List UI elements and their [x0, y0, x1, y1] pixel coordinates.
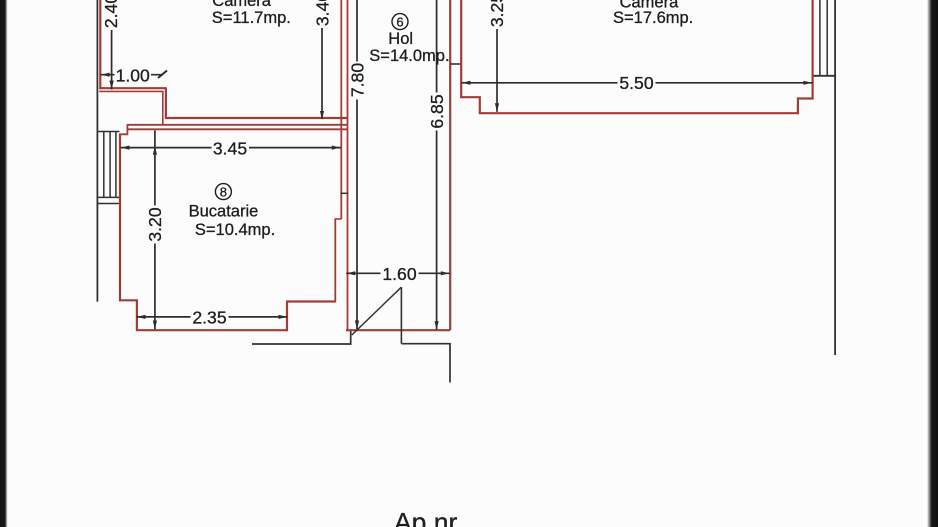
svg-text:6: 6 — [396, 15, 403, 30]
room label Bucatarie with circled 8 — [189, 184, 276, 239]
wall red Hol right wall — [449, 0, 451, 330]
dimension 3.25 — [487, 0, 507, 112]
svg-text:3.25: 3.25 — [487, 0, 507, 27]
wall exterior black line right — [834, 0, 836, 355]
dimension 1.00 — [100, 65, 167, 85]
svg-text:3.45: 3.45 — [213, 138, 247, 158]
svg-text:3.40: 3.40 — [312, 0, 332, 26]
door swing diagonal — [352, 287, 402, 335]
svg-text:2.40: 2.40 — [101, 0, 121, 28]
wall red step verticals — [162, 91, 164, 124]
svg-text:2.35: 2.35 — [192, 308, 226, 328]
svg-text:5.50: 5.50 — [619, 73, 653, 93]
room label Camera 11.7 — [212, 0, 291, 27]
wall tick in Camera/Hol wall — [340, 192, 348, 194]
window symbol right wall — [813, 0, 836, 76]
dimension 1.60 — [346, 264, 450, 284]
wall red kitchen right wall lower — [334, 219, 336, 303]
dimension 6.85 — [427, 0, 447, 330]
svg-text:S=10.4mp.: S=10.4mp. — [195, 221, 275, 239]
room label Camera 17.6 — [613, 0, 693, 27]
svg-text:S=11.7mp.: S=11.7mp. — [212, 9, 291, 27]
wall red Hol bottom wall — [346, 329, 450, 331]
wall red Camera/Hol wall right face — [347, 0, 349, 330]
svg-text:6.85: 6.85 — [427, 94, 447, 128]
door threshold left black — [252, 331, 351, 344]
wall tick Hol upper right — [450, 63, 461, 65]
wall red kitchen bottom wall — [136, 329, 287, 331]
wall red kitchen bottom-right step — [287, 302, 335, 332]
svg-text:Ap nr.: Ap nr. — [394, 508, 463, 527]
right black bar — [927, 0, 938, 527]
svg-text:Bucatarie: Bucatarie — [189, 202, 259, 220]
wall red Camera 17.6 left wall and step — [461, 0, 480, 113]
window symbol left wall — [97, 132, 119, 204]
svg-text:3.20: 3.20 — [145, 207, 165, 241]
wall red Camera 17.6 bottom wall — [479, 112, 799, 114]
dimension 3.45 — [121, 138, 341, 158]
svg-text:S=17.6mp.: S=17.6mp. — [613, 9, 693, 27]
room label Hol with circled 6 — [369, 14, 449, 65]
wall exterior black line left — [96, 0, 98, 302]
dimension 5.50 — [462, 73, 813, 93]
svg-text:1.60: 1.60 — [382, 264, 416, 284]
svg-text:8: 8 — [220, 185, 227, 200]
left black bar — [0, 0, 8, 527]
dimension 2.35 — [137, 308, 288, 328]
wall red Camera 17.6 bottom-right step — [798, 0, 813, 114]
svg-text:S=14.0mp.: S=14.0mp. — [369, 47, 449, 65]
dimension 3.40 — [312, 0, 332, 120]
wall red left wall Camera 11.7 — [99, 0, 101, 89]
dimension 2.40 — [101, 0, 121, 90]
wall red Camera 11.7 bottom wall lines — [165, 117, 348, 119]
wall red jog — [335, 218, 342, 220]
wall red kitchen left wall — [119, 134, 121, 301]
dimension 7.80 — [347, 0, 367, 329]
wall red step 1.00 horizontals — [99, 87, 167, 89]
svg-text:1.00: 1.00 — [116, 65, 150, 85]
wall red kitchen bottom-left step — [119, 300, 137, 330]
door threshold right black — [401, 344, 450, 383]
svg-text:Hol: Hol — [388, 30, 413, 48]
door leaf — [400, 287, 402, 344]
dimension 3.20 — [145, 131, 165, 330]
wall red kitchen top-left step — [119, 125, 127, 135]
wall red Camera/Hol wall left face upper — [340, 0, 342, 219]
svg-text:7.80: 7.80 — [347, 63, 367, 97]
